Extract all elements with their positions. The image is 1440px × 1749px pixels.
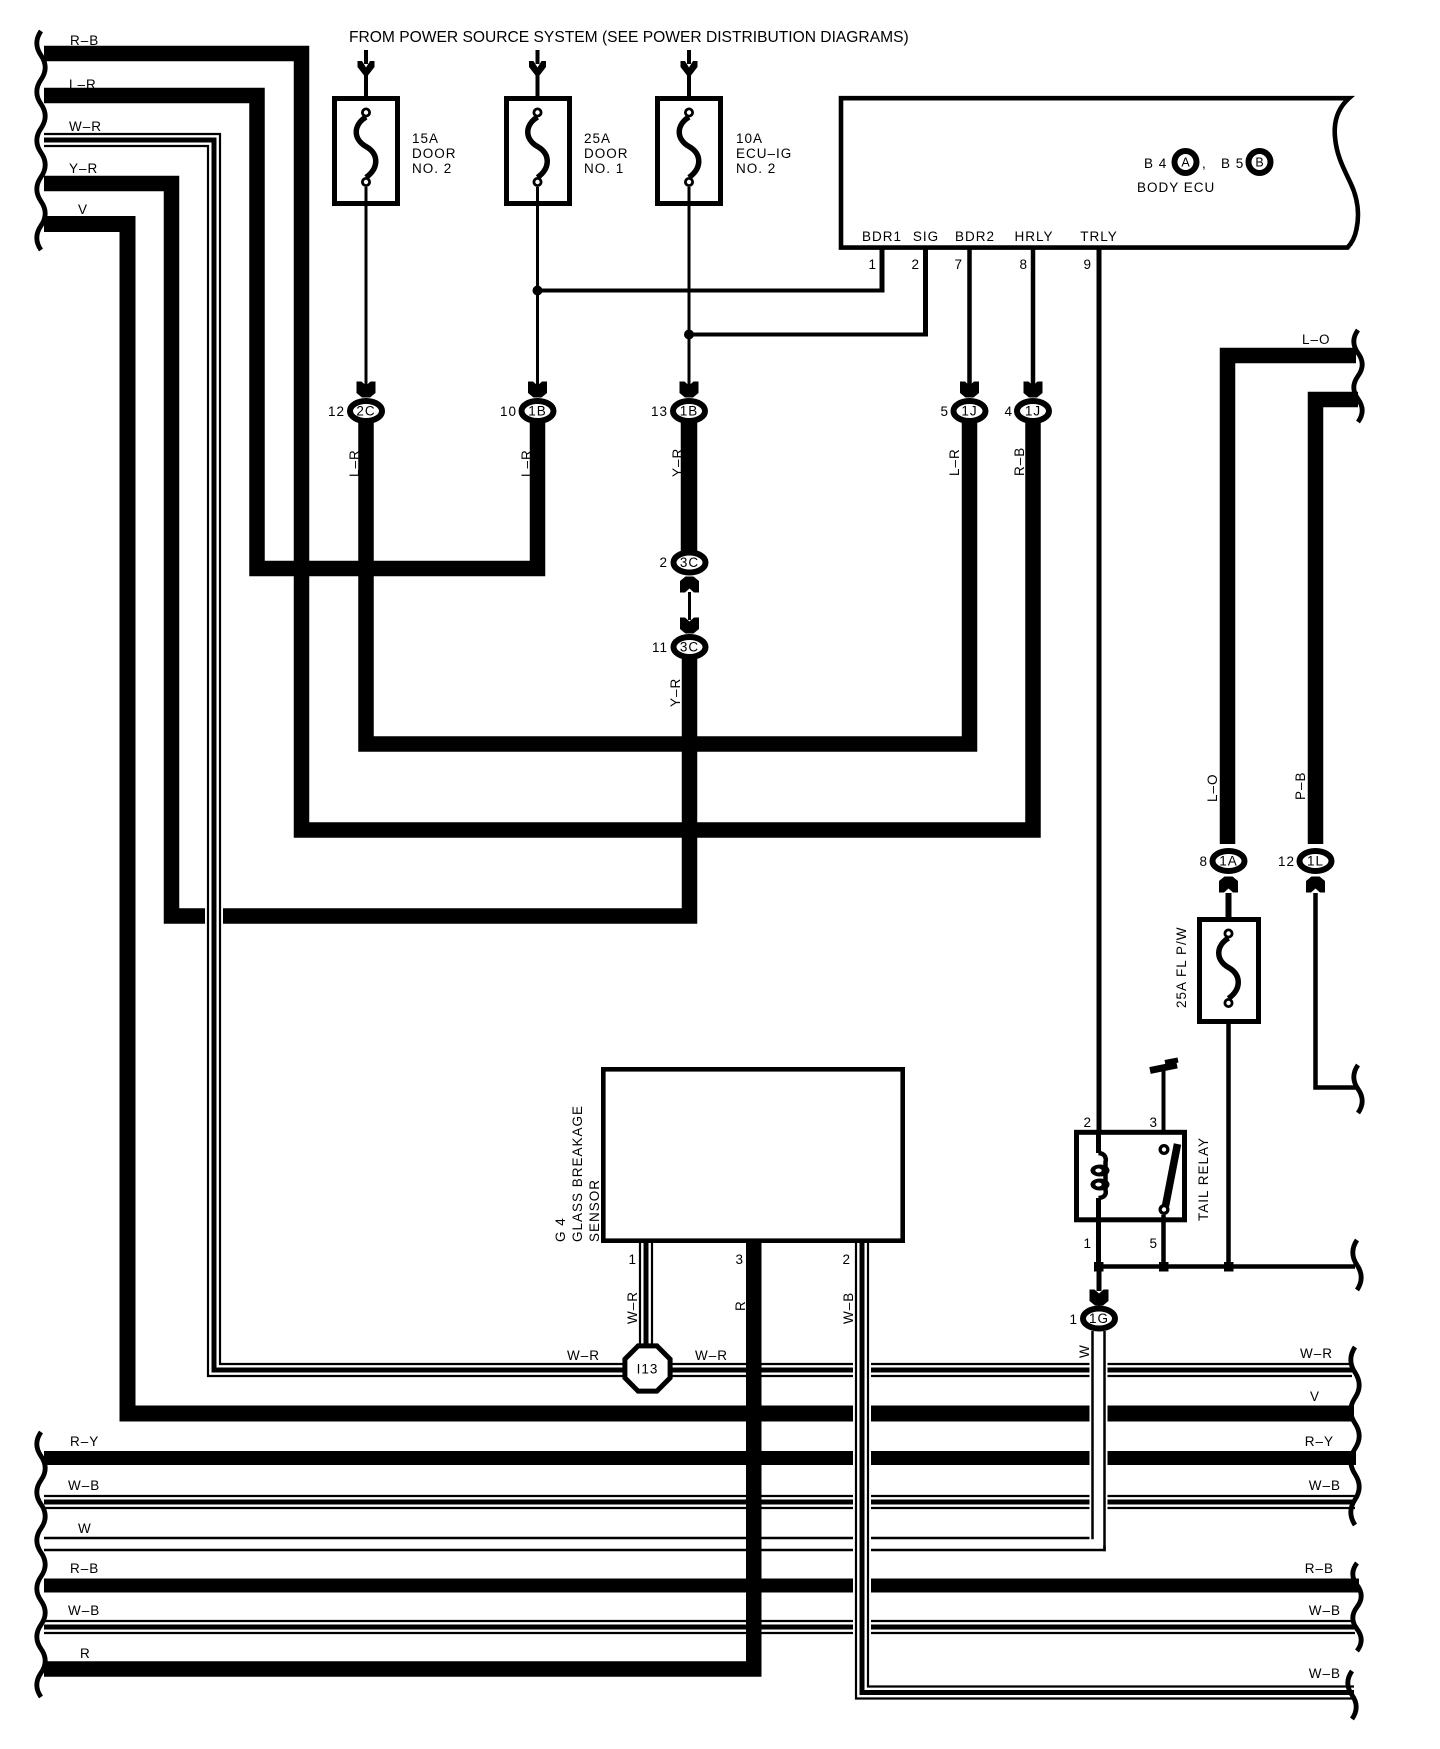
wire R from sensor pin 3 to left edge xyxy=(44,1243,754,1669)
wire W bus from left edge turning up to connector 1G xyxy=(44,1331,1099,1544)
wire fuse3 output to 13(1B) xyxy=(688,187,691,386)
svg-text:L–R: L–R xyxy=(519,449,534,477)
relay pin 1 wire xyxy=(1096,1222,1101,1267)
svg-text:L–O: L–O xyxy=(1205,773,1220,802)
wire L-R from left edge to connector 10(1B) xyxy=(44,96,538,569)
svg-text:10: 10 xyxy=(500,404,517,419)
svg-text:W–R: W–R xyxy=(1300,1346,1333,1361)
svg-text:3C: 3C xyxy=(680,640,699,655)
svg-text:I13: I13 xyxy=(637,1362,659,1377)
svg-text:2C: 2C xyxy=(356,404,375,419)
relay switch xyxy=(1159,1144,1170,1155)
fuse feed arrow 1 xyxy=(364,50,368,64)
right break mark P-B lower xyxy=(1354,1065,1362,1113)
arrow into 5(1J) xyxy=(960,382,979,398)
wire L-O to connector 8(1A) xyxy=(1228,356,1357,845)
svg-text:TRLY: TRLY xyxy=(1080,229,1118,244)
svg-text:1B: 1B xyxy=(680,404,699,419)
svg-text:BODY ECU: BODY ECU xyxy=(1137,180,1215,195)
svg-text:R–Y: R–Y xyxy=(1305,1434,1334,1449)
svg-text:SENSOR: SENSOR xyxy=(587,1179,602,1242)
svg-text:L–R: L–R xyxy=(69,77,97,92)
ECU pin 1 BDR1 stub xyxy=(880,247,885,291)
svg-text:DOOR: DOOR xyxy=(412,146,457,161)
svg-text:1L: 1L xyxy=(1307,854,1324,869)
svg-text:BDR2: BDR2 xyxy=(955,229,995,244)
svg-text:R: R xyxy=(80,1646,91,1661)
svg-text:NO. 1: NO. 1 xyxy=(584,161,624,176)
ECU connector id B5 circle B xyxy=(1249,151,1271,173)
wire SIG to fuse3 junction xyxy=(689,333,928,337)
relay coil xyxy=(1096,1132,1101,1153)
svg-text:FROM POWER SOURCE SYSTEM (SEE: FROM POWER SOURCE SYSTEM (SEE POWER DIST… xyxy=(349,29,909,46)
svg-text:W: W xyxy=(78,1521,92,1536)
svg-text:3: 3 xyxy=(1149,1115,1158,1130)
right break mark W-B bottom xyxy=(1348,1671,1356,1719)
svg-text:W–B: W–B xyxy=(841,1292,856,1324)
svg-text:2: 2 xyxy=(1083,1115,1092,1130)
body ECU box xyxy=(841,98,1358,247)
wire Y-R left run / link to 11(3C) xyxy=(44,184,690,917)
connector 13(1B) xyxy=(673,401,705,421)
svg-text:1: 1 xyxy=(628,1252,637,1267)
svg-text:R–Y: R–Y xyxy=(70,1434,99,1449)
svg-text:15A: 15A xyxy=(412,131,439,146)
svg-text:1J: 1J xyxy=(1025,404,1041,419)
junction dot at fuse3 xyxy=(684,330,694,340)
svg-text:7: 7 xyxy=(954,257,963,272)
tail relay box xyxy=(1077,1132,1185,1220)
connector 2(3C) xyxy=(674,553,706,573)
fuse 10A ECU-IG NO.2 xyxy=(658,99,721,204)
right break mark L-O/P-B xyxy=(1354,330,1362,422)
svg-text:W–B: W–B xyxy=(1309,1666,1341,1681)
wire W-B sensor pin 2 down to bottom-right bus xyxy=(862,1243,1354,1693)
svg-text:10A: 10A xyxy=(736,131,763,146)
wire 8(1A) to fuse 25A FL P/W xyxy=(1226,893,1232,917)
ECU pin 8 HRLY wire xyxy=(1031,247,1036,386)
svg-text:,: , xyxy=(1202,156,1207,171)
svg-text:R–B: R–B xyxy=(1305,1561,1334,1576)
svg-text:R–B: R–B xyxy=(1012,447,1027,476)
svg-text:B 5: B 5 xyxy=(1221,156,1244,171)
svg-text:W–R: W–R xyxy=(567,1348,600,1363)
right break mark W-R/V/R-Y/W-B xyxy=(1351,1347,1359,1525)
wire R-B from left edge to connector 4(1J) HRLY xyxy=(44,54,1033,831)
svg-text:W–R: W–R xyxy=(625,1291,640,1324)
svg-text:W–B: W–B xyxy=(68,1478,100,1493)
svg-text:1: 1 xyxy=(868,257,877,272)
svg-text:SIG: SIG xyxy=(913,229,939,244)
svg-text:1A: 1A xyxy=(1219,854,1238,869)
svg-text:G 4: G 4 xyxy=(553,1217,568,1242)
svg-text:3: 3 xyxy=(735,1252,744,1267)
svg-text:NO. 2: NO. 2 xyxy=(736,161,776,176)
connector 10(1B) xyxy=(522,401,554,421)
wire R-Y bus xyxy=(44,1451,1356,1465)
junction dot at fuse2 xyxy=(533,286,543,296)
arrow into 1(1G) xyxy=(1090,1290,1109,1306)
svg-text:W–R: W–R xyxy=(695,1348,728,1363)
svg-text:11: 11 xyxy=(652,640,668,655)
wire V from left edge to V bus xyxy=(44,224,1354,1414)
svg-text:1J: 1J xyxy=(961,404,977,419)
ECU pin 7 BDR2 wire xyxy=(967,247,972,386)
arrow into 2(3C) from below xyxy=(680,577,699,593)
ECU pin 9 TRLY wire xyxy=(1097,247,1102,1132)
svg-text:25A: 25A xyxy=(584,131,611,146)
connector 8(1A) xyxy=(1213,851,1245,871)
svg-text:R–B: R–B xyxy=(70,33,99,48)
svg-text:R: R xyxy=(733,1300,748,1311)
wire W-B bus upper xyxy=(44,1493,1355,1511)
ECU connector id B4 circle A xyxy=(1175,151,1197,173)
svg-text:2: 2 xyxy=(842,1252,851,1267)
arrow into 8(1A) from below xyxy=(1219,877,1238,893)
svg-text:Y–R: Y–R xyxy=(668,678,683,707)
wire R-B bus xyxy=(44,1579,1359,1593)
svg-text:1B: 1B xyxy=(528,404,547,419)
ECU pin 2 SIG stub xyxy=(923,247,928,335)
junction row wire xyxy=(1096,1264,1355,1269)
svg-text:DOOR: DOOR xyxy=(584,146,629,161)
arrow into 10(1B) xyxy=(528,382,547,398)
arrow into 12(2C) xyxy=(357,382,376,398)
right break mark R-B/W-B xyxy=(1353,1563,1361,1651)
svg-text:25A FL P/W: 25A FL P/W xyxy=(1174,926,1189,1008)
svg-text:2: 2 xyxy=(659,555,668,570)
svg-text:1G: 1G xyxy=(1089,1311,1109,1326)
wire fuse2 output to 10(1B) xyxy=(536,187,539,386)
fuse 25A FL P/W xyxy=(1200,920,1259,1022)
connector 5(1J) xyxy=(954,401,986,421)
svg-text:4: 4 xyxy=(1004,404,1013,419)
wire junction to 1(1G) xyxy=(1097,1267,1102,1292)
svg-text:TAIL RELAY: TAIL RELAY xyxy=(1196,1137,1211,1221)
wire ground to relay pin 3 xyxy=(1162,1070,1166,1146)
svg-text:9: 9 xyxy=(1083,257,1092,272)
svg-text:V: V xyxy=(78,202,88,217)
junction square pin1 xyxy=(1094,1262,1104,1272)
svg-text:A: A xyxy=(1181,156,1190,170)
ground symbol xyxy=(1150,1065,1177,1071)
svg-text:13: 13 xyxy=(651,404,668,419)
wire P-B to connector 12(1L) xyxy=(1316,400,1359,845)
arrow into 11(3C) xyxy=(680,618,699,634)
svg-text:Y–R: Y–R xyxy=(670,448,685,477)
wire W-R from left edge down to W-R bus xyxy=(44,140,1352,1370)
left harness break mark top xyxy=(37,31,45,250)
junction connector I13 xyxy=(625,1346,670,1391)
svg-text:Y–R: Y–R xyxy=(69,161,98,176)
wire BDR1 to fuse2 junction xyxy=(538,289,885,293)
fuse 15A DOOR NO.2 xyxy=(335,99,398,204)
fuse feed arrow 3 xyxy=(687,50,691,64)
svg-text:B 4: B 4 xyxy=(1144,156,1167,171)
fuse feed arrow 2 xyxy=(536,50,540,64)
svg-text:3C: 3C xyxy=(680,555,699,570)
wire fuse 25A FL P/W to junction xyxy=(1226,1022,1231,1267)
svg-text:W–B: W–B xyxy=(1309,1478,1341,1493)
svg-text:8: 8 xyxy=(1019,257,1028,272)
svg-text:5: 5 xyxy=(940,404,949,419)
wire fuse1 output to 12(2C) xyxy=(365,187,368,386)
svg-text:5: 5 xyxy=(1149,1236,1158,1251)
wire L-R connector 12(2C) to 5(1J) BDR2 xyxy=(366,420,970,744)
svg-text:1: 1 xyxy=(1083,1236,1092,1251)
svg-text:L–O: L–O xyxy=(1302,332,1331,347)
arrow into 13(1B) xyxy=(680,382,699,398)
wire between 3C connectors xyxy=(688,592,691,620)
arrow into 12(1L) from below xyxy=(1306,877,1325,893)
wire W-B bus lower xyxy=(44,1618,1355,1636)
wire W-R sensor pin 1 to junction I13 xyxy=(637,1243,655,1347)
left harness break mark bottom xyxy=(37,1432,45,1697)
svg-text:12: 12 xyxy=(328,404,345,419)
svg-text:R–B: R–B xyxy=(70,1561,99,1576)
glass breakage sensor box xyxy=(603,1069,902,1240)
svg-text:L–R: L–R xyxy=(947,448,962,476)
junction square fuse xyxy=(1224,1262,1234,1272)
svg-text:W: W xyxy=(1077,1344,1092,1358)
svg-text:BDR1: BDR1 xyxy=(862,229,902,244)
wire Y-R connector 13(1B) down to 2(3C) xyxy=(681,420,698,552)
svg-text:12: 12 xyxy=(1278,854,1295,869)
connector 12(1L) xyxy=(1300,851,1332,871)
junction square pin5 xyxy=(1159,1262,1169,1272)
svg-text:W–B: W–B xyxy=(68,1603,100,1618)
svg-text:W–B: W–B xyxy=(1309,1603,1341,1618)
svg-text:2: 2 xyxy=(911,257,920,272)
svg-text:GLASS BREAKAGE: GLASS BREAKAGE xyxy=(570,1105,585,1242)
wire 12(1L) down and right to edge xyxy=(1316,893,1359,1088)
svg-text:NO. 2: NO. 2 xyxy=(412,161,452,176)
svg-text:B: B xyxy=(1255,156,1263,170)
right break mark junction row xyxy=(1353,1240,1361,1290)
connector 4(1J) xyxy=(1017,401,1049,421)
svg-text:ECU–IG: ECU–IG xyxy=(736,146,792,161)
svg-text:HRLY: HRLY xyxy=(1014,229,1053,244)
svg-text:1: 1 xyxy=(1069,1312,1078,1327)
wire W from connector 1G down to W bus xyxy=(1090,1331,1108,1545)
connector 1(1G) xyxy=(1083,1309,1115,1329)
connector 11(3C) xyxy=(674,637,706,657)
svg-text:L–R: L–R xyxy=(347,449,362,477)
svg-text:8: 8 xyxy=(1199,854,1208,869)
svg-text:V: V xyxy=(1310,1389,1320,1404)
fuse 25A DOOR NO.1 xyxy=(507,99,570,204)
svg-text:W–R: W–R xyxy=(69,119,102,134)
arrow into 4(1J) xyxy=(1024,382,1043,398)
connector 12(2C) xyxy=(350,401,382,421)
svg-text:P–B: P–B xyxy=(1293,771,1308,800)
